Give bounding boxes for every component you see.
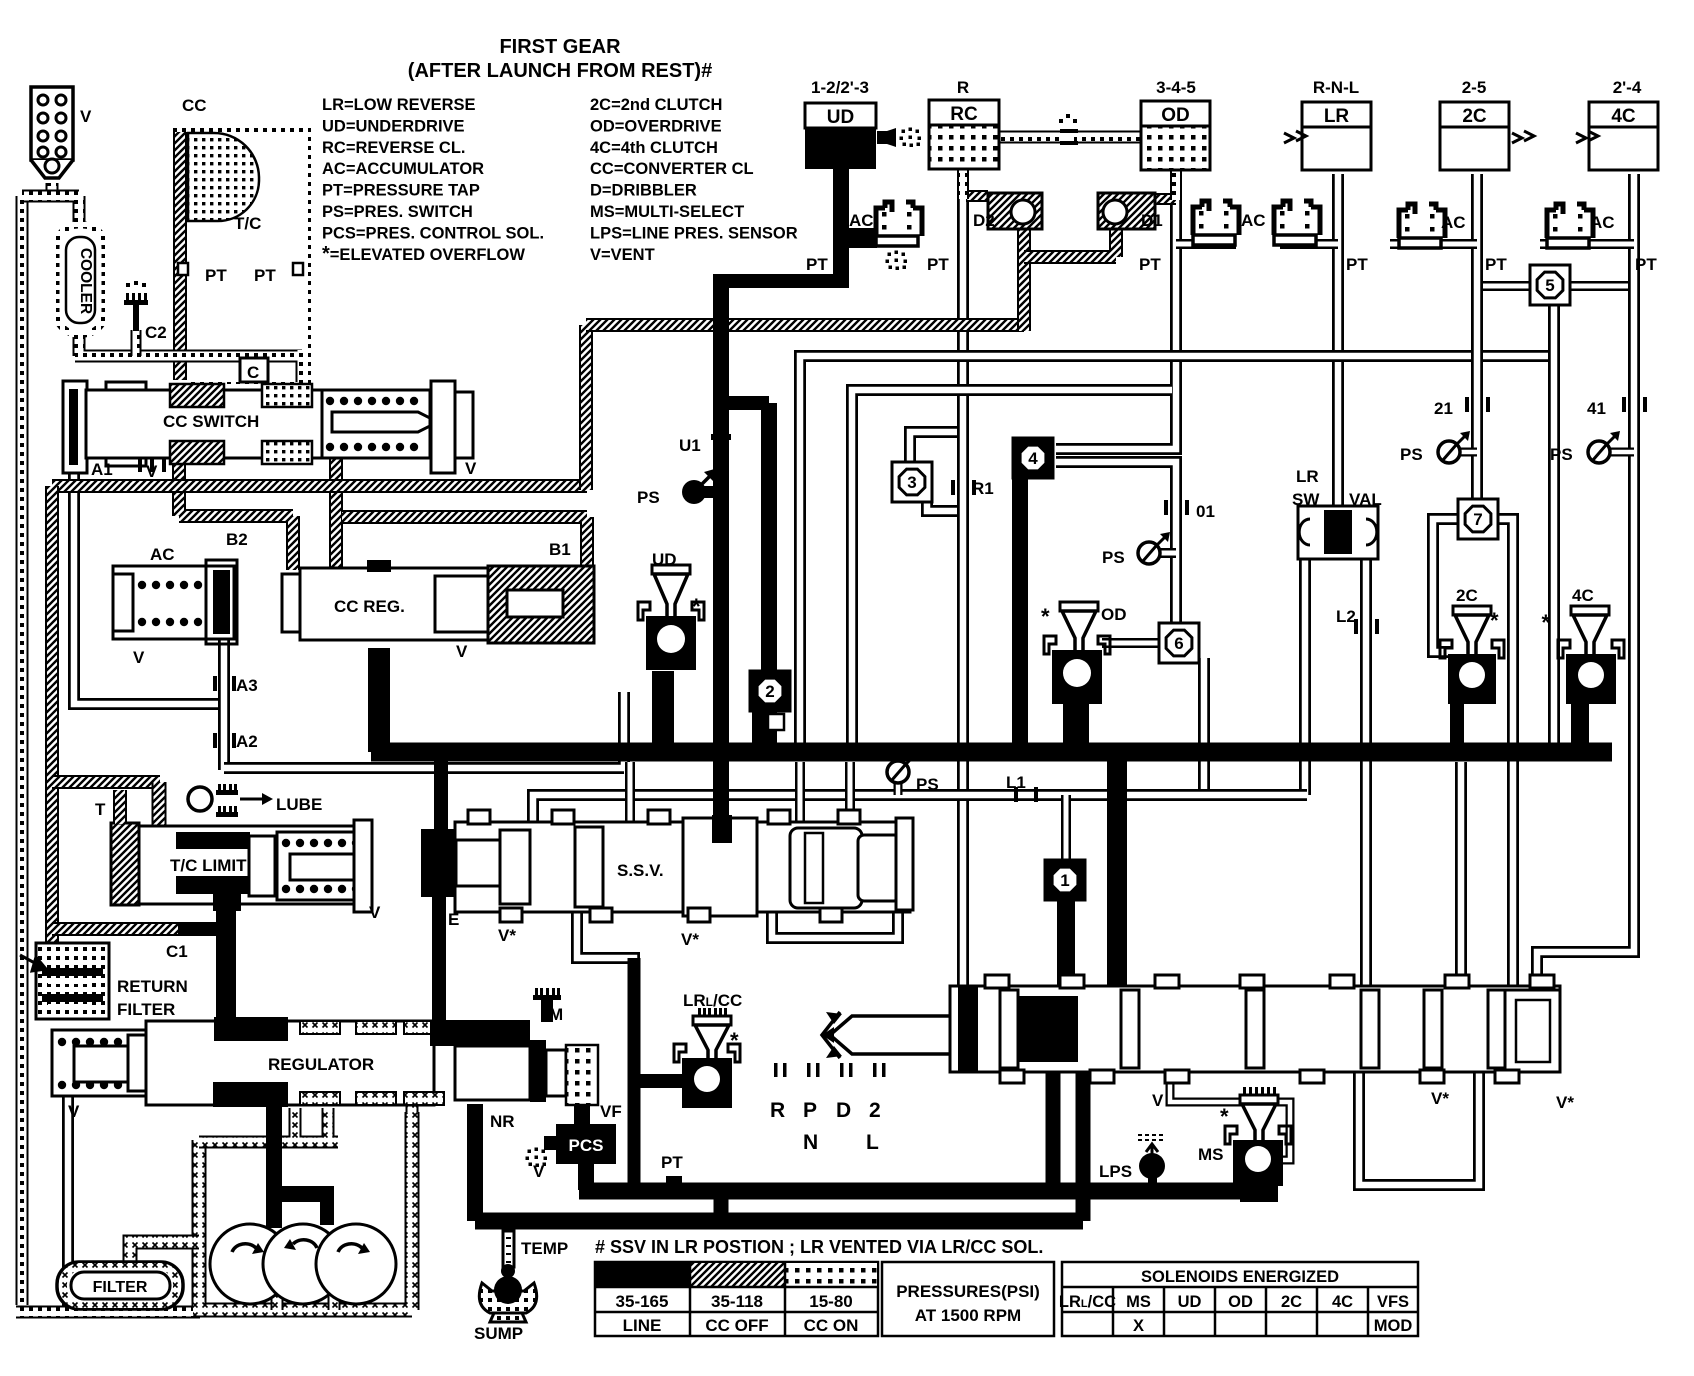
svg-text:RC: RC xyxy=(950,104,978,125)
selector ticks xyxy=(774,1063,886,1077)
label LUBE xyxy=(276,795,322,814)
label SUMP xyxy=(474,1324,523,1343)
svg-text:PT: PT xyxy=(806,255,828,274)
svg-text:VAL: VAL xyxy=(1349,490,1382,509)
break LR xyxy=(1284,131,1306,143)
svg-text:2: 2 xyxy=(765,682,774,701)
pressure tap marks T/C xyxy=(178,263,303,275)
svg-text:B2: B2 xyxy=(226,530,248,549)
svg-text:FILTER: FILTER xyxy=(93,1279,148,1296)
label E xyxy=(448,910,459,929)
svg-text:V: V xyxy=(369,903,381,922)
svg-text:MS: MS xyxy=(1198,1145,1224,1164)
svg-text:X: X xyxy=(1133,1317,1144,1335)
svg-text:C1: C1 xyxy=(166,942,188,961)
svg-text:FILTER: FILTER xyxy=(117,1000,175,1019)
wire OD AC link xyxy=(1176,239,1236,249)
svg-text:PS: PS xyxy=(1400,445,1423,464)
pipe H1 hatched xyxy=(52,479,587,493)
wire PS-21 stem xyxy=(1458,448,1477,457)
valve REGULATOR xyxy=(52,1017,444,1107)
accumulator AC left xyxy=(113,560,237,644)
wire ball1 stem up xyxy=(1061,795,1071,862)
svg-text:PS: PS xyxy=(916,775,939,794)
label R col xyxy=(957,78,969,97)
switch PS u1 xyxy=(682,468,718,504)
wire OD column lower xyxy=(1056,462,1176,630)
pipe CC feed (hatched) xyxy=(173,128,187,380)
accumulator AC lr xyxy=(1274,201,1320,245)
sensor LPS xyxy=(1138,1135,1166,1192)
label A2 xyxy=(236,732,258,751)
label V* mv1 xyxy=(1431,1089,1449,1108)
svg-text:*: * xyxy=(1490,608,1499,633)
svg-text:D2: D2 xyxy=(973,211,995,230)
svg-text:T: T xyxy=(95,800,106,819)
svg-text:V: V xyxy=(146,462,158,481)
svg-text:MS: MS xyxy=(1126,1293,1151,1311)
label FILTER rf xyxy=(117,1000,175,1019)
valve manual (range) xyxy=(950,975,1560,1083)
accumulator AC 2c xyxy=(1399,204,1445,248)
accumulator AC od xyxy=(1193,201,1239,245)
label PT 2c xyxy=(1485,255,1507,274)
label P xyxy=(803,1099,817,1122)
svg-text:4C: 4C xyxy=(1332,1293,1353,1311)
solenoid 2C xyxy=(1440,586,1504,704)
pipe filter link (x-hatch) xyxy=(130,1242,199,1262)
svg-text:CC=CONVERTER CL: CC=CONVERTER CL xyxy=(590,160,754,178)
svg-text:35-165: 35-165 xyxy=(616,1292,669,1311)
label PT od xyxy=(1139,255,1161,274)
svg-text:OD: OD xyxy=(1101,605,1127,624)
svg-text:CC REG.: CC REG. xyxy=(334,597,405,616)
wire manual valve MS link xyxy=(1170,1070,1290,1160)
label V* ssv1 xyxy=(498,926,516,945)
svg-text:PRESSURES(PSI): PRESSURES(PSI) xyxy=(896,1282,1040,1301)
spool arrow manual xyxy=(822,1012,840,1058)
check 2 xyxy=(750,671,790,751)
label AC 2c xyxy=(1441,213,1466,232)
svg-text:3-4-5: 3-4-5 xyxy=(1156,78,1196,97)
svg-text:E: E xyxy=(448,910,459,929)
legend column 1 xyxy=(322,96,544,265)
label B2 xyxy=(226,530,248,549)
svg-text:L: L xyxy=(866,1131,879,1154)
svg-text:PT: PT xyxy=(1485,255,1507,274)
label V reg xyxy=(68,1102,80,1121)
label U1 xyxy=(679,436,701,455)
wire R1 column (RC to manual valve) xyxy=(957,172,969,988)
pipe RC box stub (dotted) xyxy=(957,169,969,199)
label V ac xyxy=(133,648,145,667)
svg-text:4C: 4C xyxy=(1572,586,1594,605)
wire SSV right drain loop xyxy=(772,908,898,938)
junction L2 tick xyxy=(1354,619,1379,634)
label CC xyxy=(182,96,207,115)
title subtitle xyxy=(408,60,712,82)
wire ball5 right link xyxy=(1569,281,1634,291)
svg-text:SUMP: SUMP xyxy=(474,1324,523,1343)
svg-text:V: V xyxy=(1152,1091,1164,1110)
wire LR valve left drop xyxy=(1299,557,1311,795)
junction L1 tick xyxy=(1014,787,1038,802)
pipe TC bottom link (dotted) xyxy=(268,350,302,382)
label L1 xyxy=(1006,773,1026,792)
svg-text:PT: PT xyxy=(1346,255,1368,274)
svg-text:LPS=LINE PRES. SENSOR: LPS=LINE PRES. SENSOR xyxy=(590,224,798,242)
junction R1 tick xyxy=(951,480,976,495)
svg-text:N: N xyxy=(803,1131,818,1154)
junction 01 tick xyxy=(1164,500,1189,515)
wire SSV top stub 2 xyxy=(795,762,805,824)
svg-text:4: 4 xyxy=(1028,449,1038,468)
valve S.S.V. xyxy=(455,810,913,922)
label PT rc xyxy=(927,255,949,274)
solenoid LR/CC xyxy=(674,991,742,1108)
check valve LUBE xyxy=(188,784,273,817)
svg-text:D=DRIBBLER: D=DRIBBLER xyxy=(590,182,697,200)
svg-text:OD: OD xyxy=(1161,105,1190,126)
svg-text:LR: LR xyxy=(1296,467,1319,486)
svg-text:PCS: PCS xyxy=(569,1136,604,1155)
dribbler RC-OD xyxy=(1059,114,1078,143)
svg-text:VFS: VFS xyxy=(1377,1293,1409,1311)
svg-text:*: * xyxy=(1220,1104,1229,1129)
pipe OD-D1 elbow hatched xyxy=(1155,193,1176,205)
svg-text:3: 3 xyxy=(907,473,916,492)
label SW xyxy=(1292,490,1320,509)
label 01 xyxy=(1196,502,1215,521)
label A3 xyxy=(236,676,258,695)
pipe pump left suction (x-hatch) xyxy=(193,1112,412,1310)
check 4 xyxy=(1013,438,1053,478)
label T/C LIMIT xyxy=(170,856,247,875)
svg-text:*: * xyxy=(1041,604,1050,629)
wire ball6 drop to L1 xyxy=(1198,658,1210,793)
label T xyxy=(95,800,106,819)
svg-text:LUBE: LUBE xyxy=(276,795,322,814)
svg-text:1: 1 xyxy=(1060,871,1069,890)
svg-text:PT: PT xyxy=(661,1153,683,1172)
pipe regulator bottom loop (x-hatch) xyxy=(199,1100,412,1142)
label PT pcs xyxy=(661,1153,683,1172)
label CC REG. xyxy=(334,597,405,616)
check 1 xyxy=(1045,860,1085,900)
svg-text:7: 7 xyxy=(1473,510,1482,529)
svg-text:A2: A2 xyxy=(236,732,258,751)
label AC left xyxy=(150,545,175,564)
label PT ud xyxy=(806,255,828,274)
svg-text:V: V xyxy=(533,1162,545,1181)
svg-text:U1: U1 xyxy=(679,436,701,455)
label V ccs-right xyxy=(465,459,477,478)
wire SSV top stub 1 xyxy=(625,762,635,824)
wire line yA to ball5 xyxy=(800,356,1554,746)
label V mv xyxy=(1152,1091,1164,1110)
svg-text:(AFTER LAUNCH FROM REST)#: (AFTER LAUNCH FROM REST)# xyxy=(408,60,712,82)
label C2 xyxy=(145,323,167,342)
label REGULATOR xyxy=(268,1055,374,1074)
cooler xyxy=(56,225,105,334)
valve CC SWITCH xyxy=(63,381,473,473)
wire LR AC link xyxy=(1280,239,1338,249)
pipe D2 drop hatched xyxy=(1017,225,1031,331)
note SSV xyxy=(595,1237,1043,1257)
clutch LR xyxy=(1302,102,1371,170)
label 41 xyxy=(1587,399,1606,418)
junction U1 tick xyxy=(711,434,731,440)
pipe B1 riser hatched xyxy=(579,325,593,490)
label V* mv2 xyxy=(1556,1093,1574,1112)
wire PS-41 stem xyxy=(1608,448,1634,457)
svg-text:M: M xyxy=(549,1005,563,1024)
svg-text:2C: 2C xyxy=(1281,1293,1302,1311)
title FIRST GEAR xyxy=(499,36,621,58)
wire 2C sol drain pedestal xyxy=(1452,704,1463,748)
svg-text:PT: PT xyxy=(254,266,276,285)
pipe OD box stub (dotted) xyxy=(1170,170,1182,200)
label RETURN xyxy=(117,977,188,996)
svg-text:V: V xyxy=(68,1102,80,1121)
node C xyxy=(240,358,268,382)
svg-text:PT=PRESSURE TAP: PT=PRESSURE TAP xyxy=(322,182,480,200)
pipe strainer-cooler link (dotted) xyxy=(22,196,268,356)
svg-text:REGULATOR: REGULATOR xyxy=(268,1055,374,1074)
wire ball5 drop xyxy=(1548,303,1560,746)
label N xyxy=(803,1131,818,1154)
svg-text:OD=OVERDRIVE: OD=OVERDRIVE xyxy=(590,117,722,135)
wire A3-A2 line xyxy=(218,640,230,770)
svg-text:2-5: 2-5 xyxy=(1462,78,1487,97)
svg-text:FIRST GEAR: FIRST GEAR xyxy=(499,36,621,58)
pipe left hatched drop xyxy=(45,486,59,945)
label S.S.V. xyxy=(617,861,664,880)
switch PS l1 xyxy=(887,751,939,794)
svg-text:LR=LOW REVERSE: LR=LOW REVERSE xyxy=(322,96,476,114)
junction A2 ticks xyxy=(213,733,236,748)
wire 4C column xyxy=(1537,174,1634,988)
svg-text:LRL/CC: LRL/CC xyxy=(683,991,742,1010)
label R-N-L xyxy=(1313,78,1359,97)
clutch UD xyxy=(805,103,876,169)
svg-text:OD: OD xyxy=(1228,1293,1253,1311)
wire ball7 left loop xyxy=(1433,519,1459,652)
label C1 xyxy=(166,942,188,961)
svg-text:1-2/2'-3: 1-2/2'-3 xyxy=(811,78,869,97)
label V pcs xyxy=(533,1162,545,1181)
switch PS 41 xyxy=(1550,431,1620,464)
svg-text:PS: PS xyxy=(1102,548,1125,567)
pipe C1 hatched link xyxy=(52,922,180,936)
pipe RC-D2 elbow hatched xyxy=(966,190,988,202)
dribbler C2 xyxy=(124,281,148,331)
wire manual valve drain loop xyxy=(1359,1070,1479,1185)
label 1-2/2-3 xyxy=(811,78,869,97)
wire UD accum PT link xyxy=(842,231,878,241)
switch PS od xyxy=(1102,532,1170,567)
wire C1 black link xyxy=(178,922,226,936)
break 4C xyxy=(1576,131,1598,143)
svg-text:21: 21 xyxy=(1434,399,1453,418)
svg-text:15-80: 15-80 xyxy=(809,1292,852,1311)
pipe H3 hatched to B1 xyxy=(342,517,587,566)
legend table pressures ranges xyxy=(595,1262,878,1336)
svg-text:V*: V* xyxy=(1431,1089,1449,1108)
pipe T feed hatched xyxy=(52,775,160,789)
label PT tc-right xyxy=(254,266,276,285)
return filter xyxy=(20,943,109,1019)
label R xyxy=(770,1099,785,1122)
svg-text:*: * xyxy=(692,594,701,619)
pipe H2 hatched xyxy=(586,318,1024,332)
svg-text:AC: AC xyxy=(1241,211,1266,230)
wire ball3 upper link xyxy=(910,432,957,464)
label 2-4 xyxy=(1613,78,1642,97)
wire line yB to OD col xyxy=(852,390,1172,746)
check 5 xyxy=(1530,265,1570,305)
pipe D2-D1 link hatched xyxy=(1024,225,1116,257)
pipe left outer return (dotted) xyxy=(16,183,200,1312)
svg-text:SW: SW xyxy=(1292,490,1320,509)
wire 2C AC link xyxy=(1390,239,1477,249)
svg-text:A3: A3 xyxy=(236,676,258,695)
label PT 4c xyxy=(1635,255,1657,274)
block D1 xyxy=(1098,193,1155,229)
svg-text:PT: PT xyxy=(1139,255,1161,274)
svg-text:4C: 4C xyxy=(1611,106,1636,127)
svg-text:T/C: T/C xyxy=(234,214,261,233)
svg-text:CC: CC xyxy=(182,96,207,115)
wire SSV top stub 3 xyxy=(845,762,855,824)
valve LR SW VAL xyxy=(1298,506,1378,559)
label 2 xyxy=(869,1099,881,1122)
svg-text:AC=ACCUMULATOR: AC=ACCUMULATOR xyxy=(322,160,484,178)
label TEMP xyxy=(521,1239,568,1258)
label M xyxy=(549,1005,563,1024)
label PT tc-left xyxy=(205,266,227,285)
junction 41 tick xyxy=(1622,397,1647,412)
svg-text:V: V xyxy=(456,642,468,661)
wire LR column xyxy=(1332,174,1344,508)
svg-text:UD: UD xyxy=(1178,1293,1202,1311)
wire RPD2 spool stem xyxy=(826,1012,958,1058)
filter suction xyxy=(57,1262,183,1309)
svg-text:6: 6 xyxy=(1174,634,1183,653)
label D1 xyxy=(1141,211,1163,230)
svg-text:PT: PT xyxy=(205,266,227,285)
check 6 xyxy=(1159,623,1199,663)
label LR sw xyxy=(1296,467,1319,486)
svg-text:LR: LR xyxy=(1324,106,1350,127)
label D xyxy=(836,1099,851,1122)
check 3 xyxy=(892,462,932,502)
label NR xyxy=(490,1112,515,1131)
sump xyxy=(479,1276,536,1322)
break 2C xyxy=(1512,131,1534,143)
svg-text:NR: NR xyxy=(490,1112,515,1131)
wire A1 line xyxy=(74,462,220,704)
thermometer TEMP xyxy=(501,1231,515,1278)
svg-text:LPS: LPS xyxy=(1099,1162,1132,1181)
svg-text:R: R xyxy=(957,78,969,97)
label AC odlr xyxy=(1241,211,1266,230)
svg-text:RC=REVERSE CL.: RC=REVERSE CL. xyxy=(322,139,466,157)
pipe C2 stem (dotted) xyxy=(131,330,142,356)
dribbler UD side xyxy=(877,128,921,148)
svg-text:2C: 2C xyxy=(1456,586,1478,605)
label PS u1 xyxy=(637,488,660,507)
valve NR xyxy=(430,988,598,1125)
svg-text:CC OFF: CC OFF xyxy=(705,1316,768,1335)
solenoid MS xyxy=(1198,1087,1291,1202)
wire thick network xyxy=(226,169,1612,1228)
svg-text:2: 2 xyxy=(869,1099,881,1122)
pipe RC-OD link (dotted) xyxy=(999,131,1141,144)
svg-text:01: 01 xyxy=(1196,502,1215,521)
solenoid OD xyxy=(1041,602,1127,704)
label V tclimit xyxy=(369,903,381,922)
wire cooler V line xyxy=(68,1095,130,1300)
vent stubs ccs xyxy=(138,458,166,472)
svg-text:C2: C2 xyxy=(145,323,167,342)
junction 21 tick xyxy=(1465,397,1490,412)
svg-text:PT: PT xyxy=(927,255,949,274)
label VAL xyxy=(1349,490,1382,509)
label LPS xyxy=(1099,1162,1132,1181)
label 3-4-5 xyxy=(1156,78,1196,97)
torque converter T/C xyxy=(174,128,307,386)
valve CC REG xyxy=(282,560,594,643)
wire ball6 left link xyxy=(1102,638,1163,648)
label T/C xyxy=(234,214,261,233)
table solenoids energized xyxy=(1059,1262,1418,1336)
wire L2 line xyxy=(1360,557,1372,988)
svg-text:PS: PS xyxy=(1550,445,1573,464)
label B1 xyxy=(549,540,571,559)
block D2 xyxy=(988,193,1042,229)
svg-text:CC SWITCH: CC SWITCH xyxy=(163,412,259,431)
svg-text:T/C LIMIT: T/C LIMIT xyxy=(170,856,247,875)
svg-text:2C: 2C xyxy=(1462,106,1487,127)
wire ball7 right leg xyxy=(1497,519,1513,988)
wire PS-L1 stem xyxy=(894,783,903,795)
svg-text:S.S.V.: S.S.V. xyxy=(617,861,664,880)
svg-text:PS: PS xyxy=(637,488,660,507)
svg-text:RETURN: RETURN xyxy=(117,977,188,996)
vent strainer V xyxy=(31,87,73,178)
svg-text:D1: D1 xyxy=(1141,211,1163,230)
svg-text:AC: AC xyxy=(1590,213,1615,232)
label PT lr xyxy=(1346,255,1368,274)
label V ccs-left xyxy=(146,462,158,481)
svg-text:V: V xyxy=(133,648,145,667)
svg-text:SOLENOIDS ENERGIZED: SOLENOIDS ENERGIZED xyxy=(1141,1268,1339,1286)
svg-text:A1: A1 xyxy=(91,460,113,479)
svg-text:D: D xyxy=(836,1099,851,1122)
wire ball2 drain xyxy=(765,712,776,748)
svg-text:B1: B1 xyxy=(549,540,571,559)
svg-text:C: C xyxy=(247,363,259,382)
svg-text:AT 1500 RPM: AT 1500 RPM xyxy=(915,1306,1021,1325)
svg-text:CC ON: CC ON xyxy=(804,1316,859,1335)
clutch RC xyxy=(929,100,999,169)
svg-text:MS=MULTI-SELECT: MS=MULTI-SELECT xyxy=(590,203,744,221)
legend column 2 xyxy=(590,96,798,264)
svg-text:R-N-L: R-N-L xyxy=(1313,78,1359,97)
svg-text:*: * xyxy=(1541,610,1550,635)
svg-text:UD: UD xyxy=(827,107,854,128)
